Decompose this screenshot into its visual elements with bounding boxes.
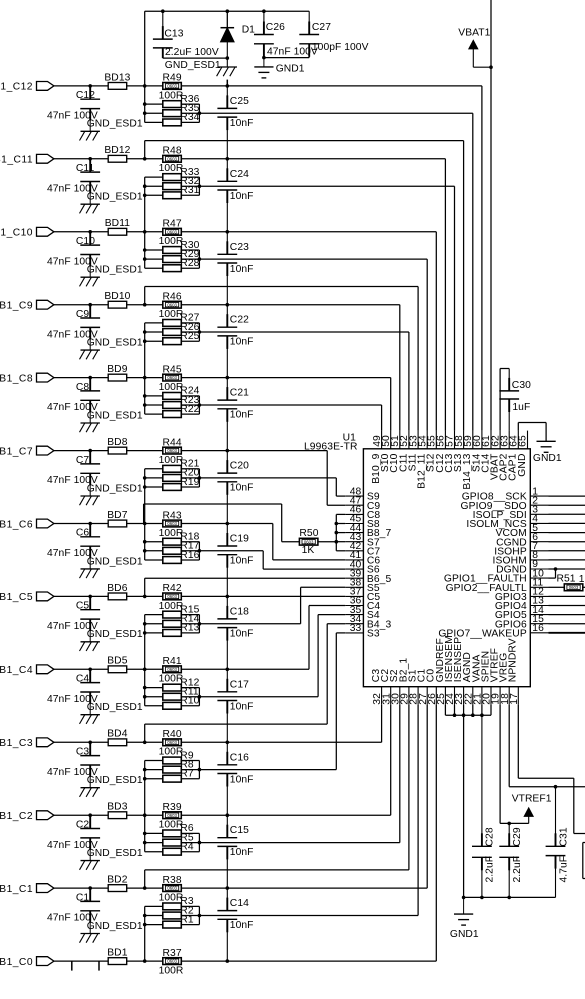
svg-text:B1_C0: B1_C0 <box>0 957 33 968</box>
svg-text:B1_C9: B1_C9 <box>0 301 33 312</box>
wire cell C6 to pin 41 <box>181 523 272 525</box>
pin 39 B6_5 <box>345 577 363 579</box>
svg-text:GND_ESD1: GND_ESD1 <box>87 702 143 713</box>
capacitor C6 47nF <box>89 524 91 537</box>
wire <box>127 814 163 816</box>
svg-text:BD5: BD5 <box>107 656 128 667</box>
wire pin 15 <box>549 623 585 625</box>
svg-text:0603: 0603 <box>304 539 314 544</box>
resistor R4 <box>163 848 182 855</box>
connector J B1_C11 <box>37 154 54 163</box>
svg-text:BD7: BD7 <box>107 510 128 521</box>
wire trio right vertical <box>198 469 200 487</box>
svg-text:BD8: BD8 <box>107 437 128 448</box>
resistor R15 <box>163 611 182 618</box>
wire <box>127 668 163 670</box>
pin 10 GPIO1__FAULTH <box>530 577 548 579</box>
svg-text:R51: R51 <box>557 574 576 585</box>
ferrite bead BD5 <box>108 666 127 673</box>
svg-text:10nF: 10nF <box>230 847 254 858</box>
wire VREG pin 18 <box>508 705 510 787</box>
wire GPIO7 WAKEUP pin 16 <box>549 632 585 634</box>
pin 40 S6 <box>345 568 363 570</box>
wire cell C3 to pin 32 <box>181 741 381 743</box>
ferrite bead BD13 <box>108 83 127 90</box>
wire <box>54 231 108 233</box>
svg-text:2.2uF: 2.2uF <box>512 856 523 883</box>
svg-text:R37: R37 <box>162 948 181 959</box>
resistor R22 <box>163 411 182 418</box>
wire trio right vertical <box>198 542 200 560</box>
svg-text:C15: C15 <box>230 825 249 836</box>
svg-text:C4: C4 <box>76 674 90 685</box>
wire trio right vertical <box>198 761 200 779</box>
pin 53 S11 <box>417 431 419 449</box>
svg-text:C1: C1 <box>76 892 90 903</box>
svg-text:R46: R46 <box>162 292 181 303</box>
resistor R18 <box>163 538 182 545</box>
ground GND_ESD1 <box>89 704 91 715</box>
svg-text:BD4: BD4 <box>107 729 128 740</box>
wire S11 row to pin 30 <box>199 842 399 844</box>
resistor R16 <box>163 557 182 564</box>
svg-text:D1: D1 <box>242 24 255 35</box>
pin 36 C4 <box>345 605 363 607</box>
svg-text:R4: R4 <box>180 842 194 853</box>
wire trio right vertical <box>198 104 200 122</box>
svg-text:NPNDRV: NPNDRV <box>508 638 519 682</box>
connector J B1_C3 <box>37 738 54 747</box>
wire tap <box>144 578 146 596</box>
wire <box>127 595 163 597</box>
svg-text:R7: R7 <box>180 769 194 780</box>
pin 11 GPIO2__FAULTL <box>530 586 548 588</box>
resistor R25 <box>163 338 182 345</box>
resistor R45 100R <box>163 374 182 381</box>
power flag VTREF1 <box>524 808 533 817</box>
svg-text:0603: 0603 <box>167 375 177 380</box>
wire tap10 to pin 34 <box>145 723 328 725</box>
pin 23 ISENSEP <box>463 687 465 705</box>
svg-text:B1_C6: B1_C6 <box>0 519 33 530</box>
capacitor C12 47nF <box>89 86 91 99</box>
resistor R33 <box>163 174 182 181</box>
resistor R49 100R <box>163 83 182 90</box>
pin 51 C10 <box>399 431 401 449</box>
svg-text:0603: 0603 <box>167 229 177 234</box>
pin 46 C8 <box>345 513 363 515</box>
wire <box>54 668 108 670</box>
resistor R46 100R <box>163 301 182 308</box>
svg-text:10nF: 10nF <box>230 337 254 348</box>
wire ground bus pins 25-20 <box>444 705 446 715</box>
wire pin 9 <box>549 568 585 570</box>
resistor R27 <box>163 320 182 327</box>
svg-text:GND_ESD1: GND_ESD1 <box>87 629 143 640</box>
power flag VBAT1 <box>490 0 492 431</box>
wire <box>127 231 163 233</box>
resistor R20 <box>163 475 182 482</box>
svg-text:33: 33 <box>350 623 362 634</box>
capacitor C26 47nF <box>263 11 265 34</box>
capacitor C8 47nF <box>89 378 91 391</box>
ground GND_ESD1 <box>89 339 91 350</box>
pin 33 S3 <box>345 632 363 634</box>
ferrite bead BD10 <box>108 301 127 308</box>
svg-text:0603: 0603 <box>167 959 177 964</box>
resistor R30 <box>163 247 182 254</box>
resistor R28 <box>163 265 182 272</box>
svg-text:VBAT1: VBAT1 <box>458 27 490 38</box>
pin 16 GPIO7__WAKEUP <box>530 632 548 634</box>
resistor R23 <box>163 402 182 409</box>
svg-text:BD9: BD9 <box>107 364 128 375</box>
connector J B1_C8 <box>37 373 54 382</box>
svg-text:R19: R19 <box>180 477 199 488</box>
wire pin 14 <box>549 614 585 616</box>
wire tap8 to pin 39 <box>145 577 346 579</box>
wire to pin 56 <box>181 158 445 160</box>
resistor R2 <box>163 912 182 919</box>
wire <box>54 158 108 160</box>
connector J B1_C4 <box>37 665 54 674</box>
pin 55 S12 <box>435 431 437 449</box>
wire <box>54 304 108 306</box>
connector J B1_C10 <box>37 227 54 236</box>
wire <box>127 304 163 306</box>
pin 8 ISOHM <box>530 559 548 561</box>
pin 52 C11 <box>408 431 410 449</box>
svg-text:C22: C22 <box>230 315 249 326</box>
ground GND_ESD1 <box>89 412 91 423</box>
wire <box>144 669 146 706</box>
wire trio right vertical <box>198 250 200 268</box>
svg-text:R31: R31 <box>180 185 199 196</box>
svg-text:C31: C31 <box>558 827 569 846</box>
ferrite bead BD9 <box>108 374 127 381</box>
capacitor C7 47nF <box>89 451 91 464</box>
svg-text:10nF: 10nF <box>230 556 254 567</box>
wire to pin 55 <box>181 231 436 233</box>
svg-text:R1: R1 <box>180 914 194 925</box>
capacitor C3 47nF <box>89 742 91 755</box>
svg-text:4.7uF: 4.7uF <box>558 856 569 883</box>
wire cropped bracket <box>583 842 585 844</box>
capacitor C14 10nF <box>226 888 228 911</box>
ferrite bead BD7 <box>108 520 127 527</box>
svg-text:R50: R50 <box>299 528 318 539</box>
wire tap <box>144 724 146 742</box>
svg-text:C9: C9 <box>76 309 90 320</box>
ground GND_ESD1 <box>89 850 91 861</box>
ferrite bead BD1 <box>108 958 127 965</box>
svg-text:10nF: 10nF <box>230 628 254 639</box>
svg-text:100R: 100R <box>159 966 184 977</box>
wire tap12 to pin 29 <box>145 869 409 871</box>
pin 1 GPIO8__SCK <box>530 495 548 497</box>
wire <box>144 323 146 378</box>
resistor R5 <box>163 839 182 846</box>
capacitor C2 47nF <box>89 815 91 828</box>
resistor R34 <box>163 119 182 126</box>
svg-text:2.2uF: 2.2uF <box>485 856 496 883</box>
svg-text:1K: 1K <box>302 545 315 556</box>
pin 45 S8 <box>345 523 363 525</box>
ferrite bead BD2 <box>108 885 127 892</box>
pin 2 GPIO9__SDO <box>530 504 548 506</box>
pin 32 C3 <box>381 687 383 705</box>
resistor R32 <box>163 183 182 190</box>
svg-text:GND_ESD1: GND_ESD1 <box>87 483 143 494</box>
svg-text:1: 1 <box>579 574 585 585</box>
wire to pin 58 <box>145 140 464 142</box>
connector J B1_C9 <box>37 300 54 309</box>
ground GND_ESD1 <box>89 558 91 569</box>
svg-text:R39: R39 <box>162 802 181 813</box>
svg-text:C24: C24 <box>230 169 249 180</box>
pin 25 GNDREF <box>444 687 446 705</box>
pin 3 ISOLP_SDI <box>530 513 548 515</box>
wire ground bus <box>464 896 556 898</box>
wire cell C7 to pin 47 <box>181 450 327 452</box>
pin 65 GND <box>527 431 529 449</box>
wire S9 row to pin 35 <box>199 696 318 698</box>
svg-text:GND_ESD1: GND_ESD1 <box>87 192 143 203</box>
pin 17 NPNDRV <box>517 687 519 705</box>
pin 47 C9 <box>345 504 363 506</box>
pin 31 C2 <box>390 687 392 705</box>
wire <box>54 741 108 743</box>
pin 4 ISOLM_NCS <box>530 522 548 524</box>
svg-text:C6: C6 <box>76 528 90 539</box>
wire pin 6 <box>549 541 585 543</box>
connector J B1_C12 <box>37 82 54 91</box>
ferrite bead BD11 <box>108 228 127 235</box>
capacitor C30 1uF <box>499 369 501 431</box>
svg-text:R16: R16 <box>180 550 199 561</box>
resistor R17 <box>163 547 182 554</box>
resistor R48 100R <box>163 155 182 162</box>
svg-text:BD2: BD2 <box>107 875 128 886</box>
ground GND_ESD1 <box>89 266 91 277</box>
svg-text:0603: 0603 <box>167 594 177 599</box>
wire <box>54 523 108 525</box>
pin 57 C13 <box>454 431 456 449</box>
svg-text:GND_ESD1: GND_ESD1 <box>87 848 143 859</box>
resistor R47 100R <box>163 228 182 235</box>
svg-text:GND1: GND1 <box>533 453 562 464</box>
svg-text:C12: C12 <box>76 90 95 101</box>
pin 18 VREG <box>508 687 510 705</box>
capacitor C16 10nF <box>226 742 228 765</box>
svg-text:C20: C20 <box>230 461 249 472</box>
svg-text:R38: R38 <box>162 875 181 886</box>
capacitor C24 10nF <box>226 159 228 182</box>
wire tap <box>144 287 146 305</box>
pin 59 B14_13 <box>472 431 474 449</box>
capacitor C20 10nF <box>226 451 228 474</box>
wire pin 2 <box>549 504 585 506</box>
pin 38 S5 <box>345 586 363 588</box>
svg-text:C5: C5 <box>76 601 90 612</box>
wire <box>144 469 146 524</box>
wire <box>127 523 163 525</box>
wire trio right vertical <box>198 177 200 195</box>
svg-text:BD12: BD12 <box>104 145 130 156</box>
wire <box>54 887 108 889</box>
ground GND_ESD1 <box>89 923 91 934</box>
svg-text:S3: S3 <box>367 629 380 640</box>
resistor R39 100R <box>163 812 182 819</box>
wire DGND pin 9 to pin 10 <box>549 577 556 579</box>
svg-text:R13: R13 <box>180 623 199 634</box>
capacitor C27 100pF <box>308 11 310 34</box>
ferrite bead BD4 <box>108 739 127 746</box>
wire cell C0 to pin 26 <box>181 960 436 962</box>
svg-text:10nF: 10nF <box>230 701 254 712</box>
wire tap7 <box>143 504 145 524</box>
capacitor C13 2.2uF 100V <box>162 11 164 39</box>
svg-text:C23: C23 <box>230 242 249 253</box>
svg-text:R41: R41 <box>162 656 181 667</box>
ground GND1 <box>263 58 265 67</box>
wire to pin 52 <box>199 331 409 333</box>
wire <box>54 960 108 962</box>
svg-text:C14: C14 <box>230 898 249 909</box>
wire S7 row to pin 40 <box>199 550 263 552</box>
svg-text:C25: C25 <box>230 96 249 107</box>
svg-text:R49: R49 <box>162 73 181 84</box>
wire trio right vertical <box>198 323 200 341</box>
wire pin 5 <box>549 532 585 534</box>
wire to pin 49 <box>199 404 381 406</box>
wire S8 row to pin 38 <box>199 623 300 625</box>
svg-text:B1_C11: B1_C11 <box>0 155 33 166</box>
resistor R9 <box>163 757 182 764</box>
pin 24 ISENSEM <box>454 687 456 705</box>
svg-text:BD11: BD11 <box>105 218 131 229</box>
svg-text:B1_C12: B1_C12 <box>0 82 33 93</box>
svg-text:B1_C7: B1_C7 <box>0 446 33 457</box>
pin 30 S2 <box>399 687 401 705</box>
svg-text:2.2uF 100V: 2.2uF 100V <box>165 47 219 58</box>
pin 62 VBAT <box>499 431 501 449</box>
resistor R38 100R <box>163 885 182 892</box>
svg-text:GND_ESD1: GND_ESD1 <box>87 119 143 130</box>
pin 34 B4_3 <box>345 623 363 625</box>
ferrite bead BD8 <box>108 447 127 454</box>
wire <box>144 906 146 961</box>
svg-text:GND1: GND1 <box>450 929 479 940</box>
ground GND_ESD1 <box>89 193 91 204</box>
wire tap <box>144 870 146 888</box>
wire <box>54 814 108 816</box>
svg-text:B1_C5: B1_C5 <box>0 592 33 603</box>
capacitor C17 10nF <box>226 669 228 692</box>
resistor R19 <box>163 484 182 491</box>
svg-text:GND1: GND1 <box>276 64 305 75</box>
svg-text:GND: GND <box>517 454 528 477</box>
wire VTREF pin 19 <box>499 705 501 824</box>
svg-text:R44: R44 <box>162 437 181 448</box>
wire to pin 59 <box>199 112 472 114</box>
pin 49 B10_9 <box>381 431 383 449</box>
resistor R36 <box>163 101 182 108</box>
capacitor C29 2.2uF <box>508 823 510 846</box>
svg-text:R34: R34 <box>180 112 199 123</box>
svg-text:GPIO7__WAKEUP: GPIO7__WAKEUP <box>438 628 527 639</box>
wire tap <box>144 141 146 159</box>
pin 60 S14 <box>481 431 483 449</box>
resistor R1 <box>163 921 182 928</box>
ground GND1 <box>463 897 465 914</box>
pin 54 B12_11 <box>426 431 428 449</box>
wire pin 7 <box>549 550 585 552</box>
wire trio right vertical <box>198 396 200 414</box>
svg-text:GND_ESD1: GND_ESD1 <box>87 921 143 932</box>
resistor R21 <box>163 465 182 472</box>
wire pin 3 <box>549 513 585 515</box>
wire cell C1 to pin 27 <box>181 887 427 889</box>
svg-text:10nF: 10nF <box>230 118 254 129</box>
resistor R10 <box>163 702 182 709</box>
wire trio right vertical <box>198 688 200 706</box>
resistor R29 <box>163 256 182 263</box>
wire trio right vertical <box>198 615 200 633</box>
wire <box>54 450 108 452</box>
wire to pin 50 <box>181 377 390 379</box>
resistor R26 <box>163 329 182 336</box>
pin 61 C14 <box>490 431 492 449</box>
resistor R8 <box>163 766 182 773</box>
wire <box>144 232 146 268</box>
svg-text:BD6: BD6 <box>107 583 128 594</box>
wire cell C2 to pin 31 <box>181 814 390 816</box>
wire to pin 51 <box>181 304 399 306</box>
svg-text:100pF 100V: 100pF 100V <box>312 42 369 53</box>
capacitor C22 10nF <box>226 305 228 328</box>
svg-text:C11: C11 <box>76 163 95 174</box>
ferrite bead BD3 <box>108 812 127 819</box>
pin 15 GPIO6 <box>530 623 548 625</box>
ferrite bead BD12 <box>108 155 127 162</box>
svg-text:0603: 0603 <box>167 521 177 526</box>
connector J B1_C0 <box>37 957 54 966</box>
pin 58 S13 <box>463 431 465 449</box>
wire AGND down <box>463 715 465 897</box>
pin 5 VCOM <box>530 532 548 534</box>
svg-text:0603: 0603 <box>167 886 177 891</box>
wire NPNDRV pin 17 <box>517 705 519 778</box>
ferrite bead BD6 <box>108 593 127 600</box>
pin 41 C6 <box>345 559 363 561</box>
wire <box>144 815 146 852</box>
wire <box>163 57 228 59</box>
wire pin 4 <box>549 522 585 524</box>
wire tap7 to R50 <box>281 504 283 542</box>
pin 26 C0 <box>435 687 437 705</box>
resistor R50 1K <box>299 538 318 545</box>
resistor R14 <box>163 620 182 627</box>
wire cell tap column <box>144 11 146 122</box>
pin 9 DGND <box>530 568 548 570</box>
svg-text:C21: C21 <box>230 388 249 399</box>
capacitor C31 4.7uF <box>555 787 557 847</box>
connector J B1_C7 <box>37 446 54 455</box>
wire pin 8 <box>549 559 585 561</box>
capacitor C5 47nF <box>89 596 91 609</box>
svg-text:VTREF1: VTREF1 <box>512 794 552 805</box>
